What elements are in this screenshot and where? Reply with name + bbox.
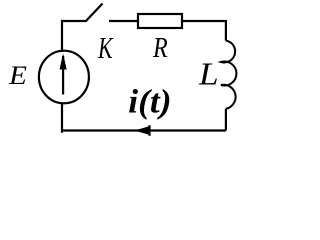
wire left vertical lower (source to bottom corner)	[62, 103, 63, 132]
svg-text:K: K	[97, 30, 114, 65]
svg-text:E: E	[8, 61, 27, 90]
wire resistor to top-right corner and down to inductor	[182, 21, 226, 41]
resistor R body	[138, 14, 182, 28]
inductor L coil	[221, 41, 236, 109]
svg-text:R: R	[152, 32, 168, 64]
current direction arrowhead on bottom wire	[135, 125, 151, 135]
wire bottom horizontal	[62, 129, 226, 131]
svg-text:L: L	[198, 56, 219, 92]
switch K blade	[86, 4, 103, 22]
svg-text:i(t): i(t)	[128, 83, 171, 120]
wire inductor to bottom-right corner	[225, 109, 227, 131]
wire left vertical upper (top corner to source)	[61, 20, 62, 52]
wire top-left horizontal (corner to switch pivot)	[61, 20, 86, 22]
source E internal arrow	[62, 56, 64, 95]
source E circle	[39, 51, 89, 104]
wire switch contact to resistor	[109, 20, 138, 22]
